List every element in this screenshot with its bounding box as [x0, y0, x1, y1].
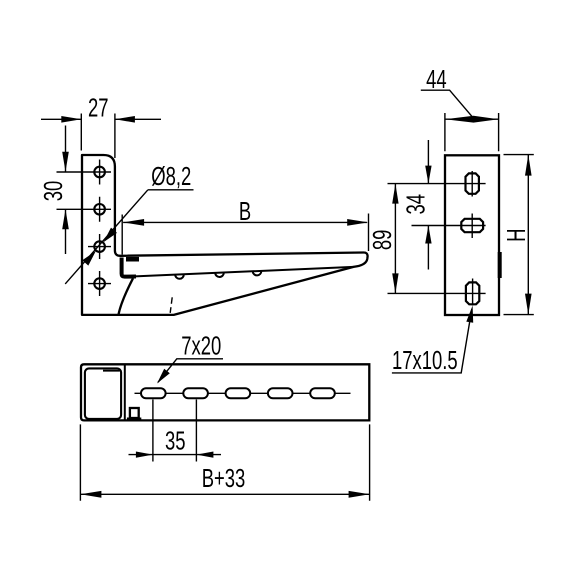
top view hook tab	[130, 408, 139, 418]
side view bend tick	[170, 297, 172, 313]
dimension H extension lines	[504, 155, 534, 315]
front slot bottom crosshair	[388, 279, 486, 306]
dimension H arrows	[525, 155, 532, 176]
dimension 44 line	[445, 118, 499, 120]
svg-text:44: 44	[426, 65, 447, 94]
svg-text:30: 30	[39, 181, 68, 202]
dimension 89 line	[394, 184, 396, 294]
top view plate-arm divider	[124, 364, 126, 420]
dimension B+33 extension lines	[80, 424, 369, 500]
dimension 27 text	[88, 93, 109, 122]
dimension 27 line	[41, 118, 161, 120]
dimension 27 extension lines	[81, 114, 115, 159]
front slot middle crosshair	[412, 214, 486, 239]
arm slot 2	[183, 388, 208, 398]
leader diameter 8,2 text	[151, 162, 191, 191]
dimension 35 extension lines	[153, 400, 197, 462]
dimension 30 text	[39, 181, 68, 202]
arm slot 1	[141, 388, 166, 398]
arm slot 4	[268, 388, 293, 398]
dimension B extension lines	[122, 214, 368, 255]
dimension H line	[527, 155, 529, 315]
hole 1 crosshair	[57, 160, 112, 185]
dimension 35 arrows	[136, 452, 153, 458]
svg-text:H: H	[502, 229, 531, 242]
svg-text:35: 35	[165, 426, 186, 455]
svg-text:B+33: B+33	[202, 464, 246, 493]
arm slot 5	[310, 388, 335, 398]
leader 7x20 text	[181, 331, 221, 360]
front view plate outline	[445, 155, 499, 315]
leader 7x20 arrow	[157, 369, 170, 384]
dimension 35 text	[165, 426, 186, 455]
svg-text:Ø8,2: Ø8,2	[151, 162, 191, 191]
dimension 34 line	[427, 140, 429, 270]
front slot top	[466, 173, 479, 193]
dimension 35 line	[129, 454, 222, 456]
top view hook tab base	[127, 418, 141, 421]
side view clip block	[126, 257, 139, 262]
arm slot 3	[226, 388, 251, 398]
dimension 89 arrows	[392, 184, 398, 204]
dimension 44 leader	[421, 90, 475, 119]
dimension 44 extension lines	[445, 113, 499, 151]
dimension B+33 arrows	[80, 491, 101, 498]
hole 3 crosshair	[88, 234, 111, 259]
side view bracket outline	[82, 155, 368, 315]
dimension 44 arrows	[445, 116, 474, 123]
svg-text:89: 89	[368, 230, 397, 251]
dimension B+33 text	[202, 464, 246, 493]
leader diameter 8,2 arrows	[103, 228, 117, 243]
dimension 44 text	[426, 65, 447, 94]
leader 17x10.5 line	[392, 309, 472, 373]
front slot middle	[461, 219, 483, 232]
dimension B text	[239, 197, 251, 226]
dimension 34 arrows	[425, 166, 431, 184]
side view arm flange bottom line	[135, 267, 354, 277]
top view plate inner outline	[85, 368, 121, 419]
hole 4 crosshair	[88, 271, 111, 296]
top view slot centerline	[135, 392, 351, 394]
svg-text:27: 27	[88, 93, 109, 122]
leader 7x20 line	[158, 359, 223, 383]
dimension 30 arrows	[62, 152, 69, 172]
dimension B+33 line	[80, 493, 369, 495]
top view clip notch line	[103, 370, 120, 372]
hole 2 crosshair	[57, 197, 112, 222]
hole 3	[94, 241, 105, 252]
hole 1	[94, 167, 105, 178]
top view outer outline	[81, 364, 369, 420]
leader 17x10.5 arrow	[466, 306, 473, 323]
svg-text:B: B	[239, 197, 251, 226]
svg-text:34: 34	[401, 194, 430, 215]
dimension 34 text	[401, 194, 430, 215]
dimension B line	[123, 221, 367, 223]
side view gusset curve	[118, 278, 133, 315]
side view hook profile	[122, 258, 136, 277]
dimension H text	[502, 229, 531, 242]
svg-text:7x20: 7x20	[181, 331, 221, 360]
hole 2	[94, 204, 105, 215]
hole 4	[94, 278, 105, 289]
svg-text:17x10.5: 17x10.5	[392, 346, 458, 375]
side view slot bumps under flange	[175, 274, 184, 279]
front slot top crosshair	[388, 171, 486, 197]
leader 17x10.5 text	[392, 346, 458, 375]
front slot bottom	[466, 282, 479, 304]
dimension 30 line	[65, 126, 67, 255]
dimension 89 text	[368, 230, 397, 251]
leader diameter 8,2 line	[65, 190, 193, 284]
front view weld edge	[498, 252, 502, 278]
dimension B arrows	[123, 219, 144, 226]
dimension 27 arrows	[61, 116, 81, 123]
